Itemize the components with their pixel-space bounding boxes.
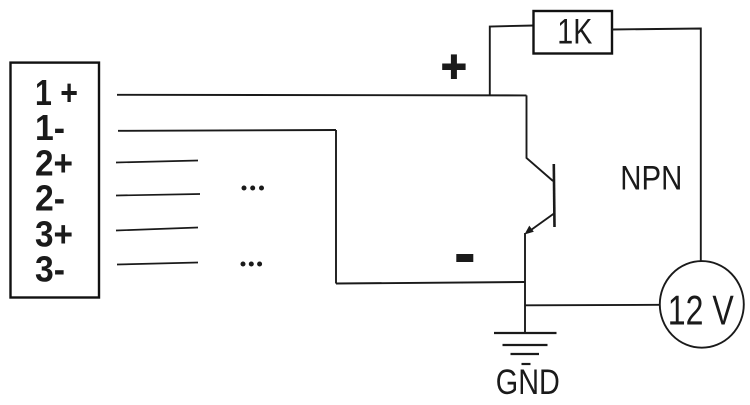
- ellipsis dots upper: [242, 186, 265, 191]
- wire emitter node to supply: [526, 304, 660, 307]
- wire stub 2+: [116, 161, 198, 163]
- svg-text:NPN: NPN: [620, 159, 682, 197]
- svg-text:1K: 1K: [557, 13, 592, 52]
- wire stub 3-: [117, 263, 198, 265]
- connector block J1: [11, 63, 100, 298]
- svg-text:12 V: 12 V: [668, 287, 734, 334]
- plus terminal symbol: [442, 54, 465, 79]
- wire 1- to emitter: [336, 282, 525, 284]
- ellipsis dots lower: [241, 262, 263, 267]
- transistor Q1 base bar: [552, 164, 555, 227]
- wire stub 3+: [116, 228, 198, 231]
- transistor Q1 collector lead: [527, 95, 554, 181]
- wire 1- horizontal: [118, 129, 336, 132]
- svg-text:2-: 2-: [35, 177, 65, 218]
- wire resistor to supply: [612, 29, 701, 263]
- transistor Q1 emitter lead: [524, 233, 526, 333]
- wire stub 2-: [116, 194, 200, 196]
- voltage source V1 circle: [660, 261, 744, 348]
- ground symbol: [494, 333, 557, 364]
- transistor Q1 emitter with arrow: [528, 214, 555, 233]
- resistor R1 box: [534, 11, 613, 54]
- wire junction up to resistor: [490, 26, 534, 95]
- svg-text:3-: 3-: [35, 248, 65, 289]
- wire 1+ to transistor: [117, 94, 527, 97]
- wire 1- vertical drop: [335, 130, 337, 284]
- minus terminal symbol: [456, 254, 473, 262]
- transistor Q1 emitter arrowhead: [524, 226, 533, 235]
- svg-text:GND: GND: [496, 363, 560, 402]
